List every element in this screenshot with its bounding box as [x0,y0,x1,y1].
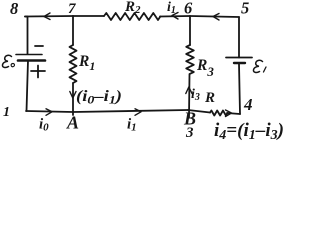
svg-text:5: 5 [241,0,249,18]
wire left vertical lower [27,61,29,112]
battery E1 short plate [234,62,245,64]
branch wire 7 down to R1 [72,16,74,45]
resistor R1 [70,45,77,83]
current arrow between 5 and 6 pointing left [213,14,219,21]
wire top segment 6 to 5 [190,16,239,17]
current arrow top-left pointing left [44,13,50,20]
svg-text:i1: i1 [127,117,137,134]
branch wire R3 down to B with overshoot [188,74,191,117]
current arrow i4 on resistor R pointing right [226,110,232,117]
svg-text:R3: R3 [196,57,214,79]
wire left vertical upper [25,17,28,55]
battery E0 long plate [16,54,42,56]
svg-text:4: 4 [243,95,253,114]
wire right vertical upper [238,17,240,58]
svg-text:(i0–i1): (i0–i1) [76,88,122,107]
label E1 (script EMF) [253,60,266,72]
svg-text:R: R [204,90,215,106]
svg-text:i1: i1 [167,0,176,16]
wire top segment R2 to 6 [160,15,190,18]
svg-text:R1: R1 [78,53,95,73]
svg-text:A: A [66,113,79,133]
current arrow i3 up on R3 branch [186,87,192,94]
svg-text:i0: i0 [39,117,49,134]
svg-text:6: 6 [184,0,193,18]
wire resistor R to node 4 [227,113,240,114]
current arrow i1 bottom pointing right [135,109,141,116]
svg-text:7: 7 [68,1,76,17]
wire bottom A to B [73,110,188,112]
wire bottom 1 to A [26,111,73,112]
battery E0 short plate [18,59,45,62]
current arrow i0 pointing right [46,109,52,116]
svg-text:1: 1 [3,105,10,120]
svg-text:R2: R2 [124,0,141,16]
resistor R2 [104,13,160,20]
svg-text:i3: i3 [191,87,200,103]
battery E1 long plate [226,57,252,59]
svg-text:i4=(i1–i3): i4=(i1–i3) [214,120,284,143]
resistor R [210,111,227,116]
resistor R3 [186,45,194,74]
svg-text:3: 3 [185,125,194,141]
label E0 (script EMF) [2,55,14,67]
branch wire 6 down to R3 [189,16,191,45]
battery E0 plus sign [31,66,45,78]
current arrow i1 before node 6 pointing left [172,13,178,20]
wire right vertical lower [239,64,240,114]
wire bottom B to resistor R [188,110,210,113]
battery E0 minus sign [35,45,43,47]
svg-text:8: 8 [10,0,18,18]
current arrow (i0-i1) down on R1 branch [70,92,76,99]
branch wire R1 down to A with overshoot [72,83,74,115]
wire top-left segment 8 to 7 [25,15,73,18]
wire top segment 7 to R2 [73,15,104,17]
